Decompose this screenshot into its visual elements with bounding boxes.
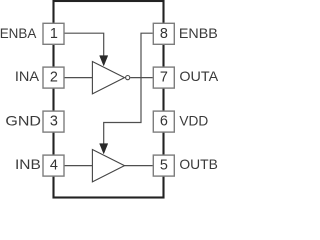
svg-text:5: 5 xyxy=(160,158,168,174)
svg-text:6: 6 xyxy=(160,114,168,130)
wire ENBA enable to buffer A xyxy=(64,33,103,57)
pin 3 box xyxy=(43,111,64,132)
svg-text:7: 7 xyxy=(160,70,168,86)
buffer A (tri-state, inverting) xyxy=(92,62,124,94)
svg-text:3: 3 xyxy=(50,114,58,130)
wire INB to buffer B input xyxy=(64,165,92,167)
wire INA to buffer A input xyxy=(64,77,92,79)
IC body outline U1 xyxy=(54,1,164,198)
arrowhead enable A xyxy=(100,56,108,66)
svg-text:1: 1 xyxy=(50,26,58,42)
wire ENBB enable to buffer B xyxy=(104,33,153,145)
svg-text:ENBB: ENBB xyxy=(179,26,218,41)
wire buffer B output to OUTB xyxy=(125,165,153,167)
svg-text:2: 2 xyxy=(50,70,58,86)
pin 8 box xyxy=(153,23,174,44)
pin 2 box xyxy=(43,67,64,88)
buffer B (tri-state) xyxy=(92,150,124,182)
svg-text:GND: GND xyxy=(5,113,41,128)
svg-text:8: 8 xyxy=(160,26,168,42)
pin 4 box xyxy=(43,155,64,176)
svg-text:INA: INA xyxy=(15,69,40,84)
pin 1 box xyxy=(43,23,64,44)
pin 6 box xyxy=(153,111,174,132)
svg-text:OUTB: OUTB xyxy=(179,157,218,172)
svg-text:OUTA: OUTA xyxy=(179,69,218,84)
pin 7 box xyxy=(153,67,174,88)
svg-text:4: 4 xyxy=(50,158,58,174)
inverter bubble buffer A output xyxy=(126,76,130,80)
wire buffer A output to OUTA xyxy=(130,77,153,79)
pin 5 box xyxy=(153,155,174,176)
svg-text:VDD: VDD xyxy=(179,113,208,128)
svg-text:INB: INB xyxy=(15,157,41,172)
svg-text:ENBA: ENBA xyxy=(0,26,37,41)
arrowhead enable B xyxy=(100,144,108,154)
